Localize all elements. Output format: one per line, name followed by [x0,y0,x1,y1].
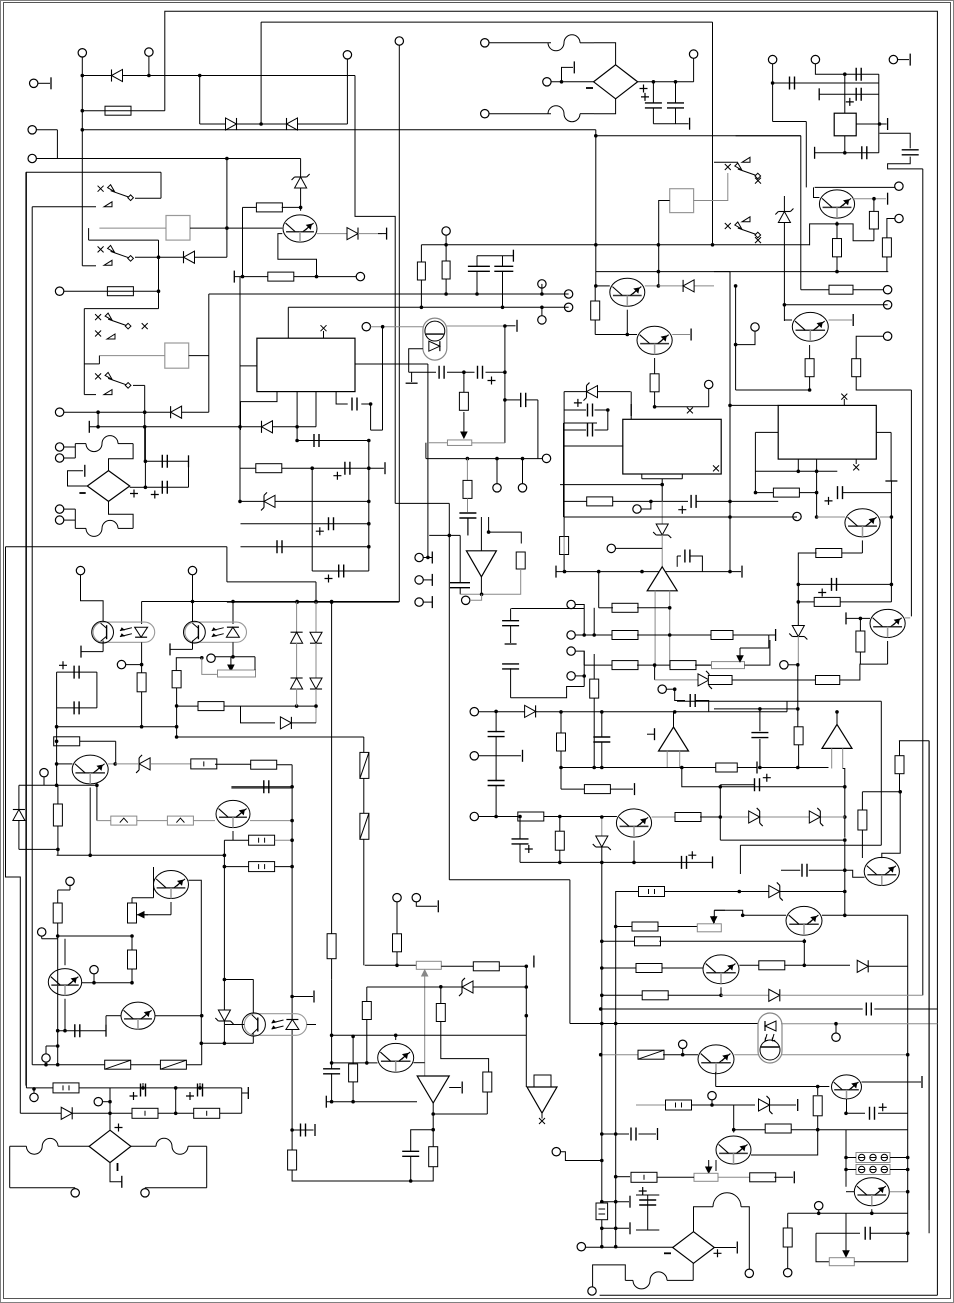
terminator [921,1076,923,1088]
wire [460,569,521,594]
junction [330,600,334,604]
diode D16 [683,280,694,292]
wire [395,1035,397,1040]
wire [275,866,292,868]
contact mark [841,394,847,400]
IC U2 [834,113,856,136]
terminator [522,750,524,762]
wire [459,588,461,595]
terminal P30 [538,316,546,324]
wire [899,741,901,756]
transistor Q4 [48,969,81,996]
resistor R26 [852,359,861,377]
resistor R61 [642,991,668,1000]
wire [654,591,656,668]
wire [551,81,594,83]
contact mark [142,323,148,329]
wire [232,642,234,657]
diode D15 [775,209,793,223]
wire [601,847,603,863]
wire noop [593,608,595,635]
wire [595,409,608,411]
wire [859,652,861,664]
wire [817,1087,819,1096]
wire [297,440,369,442]
wire [477,255,513,257]
wire [836,224,838,239]
resistor R71 [349,1064,358,1082]
diode D2 [226,118,237,130]
potentiometer RP3 [447,440,471,446]
wire [296,643,298,678]
capacitor C49 [802,864,807,877]
wire [720,816,845,818]
capacitor C13 [345,462,350,475]
wire [81,575,104,622]
wire [594,43,616,65]
wire [57,890,59,904]
wire [800,136,802,290]
connector J2 [856,1165,890,1175]
wire [654,358,656,374]
wire [45,1062,47,1065]
wire [840,664,888,680]
junction [295,600,299,604]
wire [668,994,721,996]
wire [141,602,143,625]
wire [46,1045,58,1047]
resistor R62 [813,1096,822,1116]
wire [64,999,66,1031]
wire [466,459,468,481]
terminator [756,762,758,774]
wire [636,1194,659,1196]
varistor RV1 [111,816,137,825]
capacitor C43 [402,1151,419,1156]
junction [314,600,318,604]
wire [682,1049,684,1055]
wire [654,665,656,680]
wire [312,570,369,572]
junction [815,470,819,474]
capacitor C23 [862,146,867,159]
wire [99,355,164,357]
wire [241,500,369,502]
terminal P54 [567,647,575,655]
junction [367,500,371,504]
junction [592,766,596,770]
wire [479,755,522,757]
junction [815,491,819,495]
diode D12 [291,632,303,643]
wire [361,404,370,430]
wire [798,553,816,627]
terminal P38 [543,78,551,86]
wire long [288,306,568,308]
resistor R56 [639,887,665,897]
wire [661,501,663,525]
wire [561,1152,602,1161]
junction [143,410,147,414]
diode D30 [292,174,310,188]
wire [81,57,83,266]
op-amp U9 [822,724,852,748]
contact mark [755,237,761,243]
junction [559,766,563,770]
wire [420,245,422,262]
wire [231,786,248,788]
wire [74,509,76,528]
wire [93,974,95,983]
resistor R6 [54,737,80,746]
wire [809,869,845,871]
wire [675,108,677,124]
wire [96,672,98,708]
junction [223,978,227,982]
wire [836,222,838,224]
terminator [629,1196,631,1208]
wire [495,785,497,817]
resistor R31 [814,597,840,606]
wire [720,839,845,841]
wire [868,965,908,967]
wire [878,74,880,153]
terminal P19 [66,877,74,885]
wire [695,664,712,666]
junction [599,1007,603,1011]
wire [691,1104,755,1106]
label minus [586,87,593,89]
wire [564,429,586,431]
junction [290,995,294,999]
wire [261,21,712,23]
junction [668,606,672,610]
IC U4 [623,419,721,474]
wiper arrow [138,912,148,918]
wire [41,936,43,939]
junction [657,243,661,247]
wire [814,187,820,197]
wire long [564,516,798,518]
terminal P9 [55,408,63,416]
wire noop [331,979,333,1069]
wire [145,1187,207,1189]
wire [250,820,292,822]
wire [846,1169,856,1171]
switch S2 [98,245,134,261]
wire [541,458,544,460]
fuse F1 [105,1060,131,1069]
wire [511,687,585,698]
wire [366,987,368,1002]
wire [843,492,891,494]
terminal P53 [567,631,575,639]
terminal P16 [117,660,125,668]
wire [19,784,97,786]
bridge rectifier BR4 [673,1232,715,1264]
junction [330,1034,334,1038]
capacitor C21 [856,68,861,81]
junction [56,1063,60,1067]
wire [81,651,103,653]
wire [669,591,671,668]
junction [330,600,334,604]
wire [784,964,850,966]
wire [584,664,637,666]
junction [599,1053,603,1057]
junction [898,790,902,794]
wire [240,402,242,430]
junction [540,306,544,310]
terminator [516,320,518,332]
wire [601,1054,640,1056]
junction [290,838,294,842]
wire [427,364,429,557]
wire [480,577,482,595]
wire [836,257,838,272]
fuse F5 [638,1050,664,1059]
junction [503,324,507,328]
junction [56,1044,60,1048]
wire long [615,891,617,1247]
junction [728,570,732,574]
wire [425,443,427,459]
capacitor C51 [494,266,513,271]
wiper arrow [843,1213,849,1257]
wire [89,788,91,856]
wire [449,1087,461,1089]
junction [843,890,847,894]
junction [147,74,151,78]
junction [835,710,839,714]
terminator [629,1222,631,1234]
terminator [431,552,433,564]
resistor R69 [417,262,425,280]
wire [57,936,59,1065]
junction [614,1022,618,1026]
junction [540,292,544,296]
wire [470,594,482,600]
junction [560,80,564,84]
wire [467,518,469,536]
junction [674,80,678,84]
junction [56,1029,60,1033]
junction [44,1063,48,1067]
capacitor C12 [314,434,319,447]
wire [711,1100,713,1105]
junction [843,151,847,155]
wire [564,445,624,447]
wire [382,327,384,430]
resistor R14 [132,1108,158,1118]
wire [736,389,810,391]
wire [332,1062,378,1064]
terminal P69 [588,1287,596,1295]
transistor Q19 [832,1075,862,1099]
wire [118,443,133,445]
wire [57,707,97,709]
diode D24 [593,836,611,850]
junction [295,439,299,443]
wire [58,1030,106,1032]
diode D27 [857,960,868,972]
wire [520,861,713,863]
wire [672,334,690,336]
wire [861,540,863,553]
wire [694,173,728,201]
junction [130,934,134,938]
junction [817,1212,821,1216]
diode D21 [525,705,536,717]
wire [846,1191,855,1193]
wire long [82,129,596,131]
capacitor C10 [352,398,357,411]
wire long [189,880,202,1043]
terminator [325,1096,327,1108]
wire [432,1114,434,1130]
junction [680,766,684,770]
wire [880,516,891,518]
resistor R68 [256,203,282,212]
junction [843,868,847,872]
wire [773,121,807,123]
wire [655,406,690,408]
winding L6 [633,1272,667,1289]
junction [673,710,677,714]
wire [899,774,901,792]
wire [856,123,886,125]
terminator [793,1171,795,1183]
op-amp U6 [647,567,677,591]
wire [346,59,348,124]
plus [763,774,771,782]
wire [829,319,853,321]
junction [906,1232,910,1236]
junction [475,292,479,296]
resistor R30 [816,549,842,558]
transistor Q15 [378,1043,414,1072]
terminator [512,250,514,262]
label plus [115,1124,123,1132]
terminal P10 [55,443,63,451]
resistor R55 [483,1072,492,1092]
wire [467,518,469,536]
terminal P33 [415,553,423,561]
junction [600,1022,604,1026]
wire noop [736,135,801,137]
junction [238,500,242,504]
wire [593,698,595,768]
junction [141,1086,145,1090]
junction [594,243,598,247]
wire [57,826,59,849]
wire [862,1081,922,1083]
junction [503,398,507,402]
wire [144,461,146,487]
wire [696,701,709,713]
fuse F2 [160,1060,186,1069]
capacitor C52 [631,1128,636,1141]
junction [223,1042,227,1046]
wire [296,427,298,441]
terminator [233,271,235,283]
wire [133,384,145,386]
wire left rail [25,172,27,1085]
terminal P67 [784,1269,792,1277]
wire [740,844,881,846]
junction [606,408,610,412]
resistor R13 [128,950,137,969]
wire [653,123,688,125]
wire [815,64,878,74]
terminal P24 [94,1098,102,1106]
wire [19,848,59,850]
wire [57,849,59,855]
wire [296,602,298,632]
junction [597,570,601,574]
resistor R15 [194,1108,220,1118]
junction [200,1042,204,1046]
diode D19 [653,524,671,538]
wire [853,289,883,291]
wire [89,239,159,241]
wire [432,1130,434,1147]
terminal P42 [889,55,897,63]
junction [614,1227,618,1231]
terminal P50 [793,512,801,520]
winding L2 [86,520,118,536]
junction [225,226,229,230]
wire [754,432,756,492]
junction [600,815,604,819]
wire [99,227,166,229]
wire [153,867,155,898]
junction [175,704,179,708]
wiper arrow [461,412,467,438]
wire [131,936,133,950]
wire [797,459,799,471]
wire [106,1015,121,1017]
wire [846,617,870,619]
wire [33,1089,35,1093]
contact K2 [104,260,112,265]
resistor R19 [256,464,282,473]
wire [816,459,818,517]
wire [75,443,86,445]
terminator [461,1082,463,1094]
winding L5 [713,1193,741,1207]
resistor R33 [560,537,569,555]
wire [292,1129,313,1131]
junction [108,1100,112,1104]
transistor Q1 [72,755,108,784]
wiper arrow [737,648,743,662]
terminal P75 [518,484,526,492]
wire [655,679,698,681]
diode D26 [769,882,783,900]
terminator [657,1128,659,1140]
junction [719,994,723,998]
wire [797,665,799,727]
capacitor C29 [832,578,837,591]
wire [98,356,100,364]
resistor R45A [815,676,839,685]
resistor R23 [591,301,600,320]
wire [870,1232,907,1234]
wire [486,371,505,373]
junction [55,740,59,744]
wire [440,987,442,1004]
